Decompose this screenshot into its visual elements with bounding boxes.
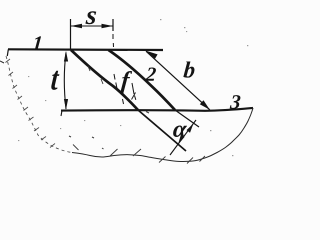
slope edge left (thick) — [71, 50, 138, 110]
stray pencil marks — [69, 112, 149, 150]
label f (friction symbol on slope band) — [120, 71, 132, 93]
dash-dot centerline through slope band — [113, 34, 124, 104]
label 2 — [145, 67, 156, 80]
dimension s right extension line — [112, 19, 114, 31]
slope edge left continuation below lower level — [138, 110, 186, 151]
faint scan specks — [18, 19, 248, 156]
upper ground surface line 1 — [8, 48, 163, 51]
freehand ground boundary left arc — [6, 56, 72, 153]
small mark at left edge — [0, 61, 4, 63]
label s — [85, 11, 96, 24]
dimension s left extension line — [70, 19, 72, 50]
lower ground surface line 3 — [61, 108, 253, 111]
hatching along left boundary — [6, 59, 56, 148]
label 3 — [230, 95, 241, 109]
dimension b line with arrows — [146, 51, 210, 110]
slope edge right (thick) — [109, 50, 176, 110]
slope edge right thin continuation — [175, 110, 199, 127]
freehand ground boundary bottom arc — [72, 153, 200, 162]
tick at left end of line 1 — [7, 50, 8, 57]
dimension t line with arrows — [64, 53, 66, 110]
hatch tick on band near line 3 — [132, 93, 136, 100]
tick at left end of line 3 — [61, 111, 62, 117]
dimension s line with arrows — [71, 25, 114, 27]
label b — [183, 61, 195, 77]
label 1 — [32, 36, 41, 50]
dimension a (layer thickness) line with arrows — [170, 120, 196, 155]
dash-dot marks right of f label — [132, 83, 136, 100]
label alpha — [173, 125, 187, 137]
freehand ground boundary right arc — [200, 108, 253, 160]
hatching along bottom boundary — [73, 145, 205, 164]
small hatch near upper left diagonal — [88, 66, 90, 71]
label t — [51, 71, 60, 90]
